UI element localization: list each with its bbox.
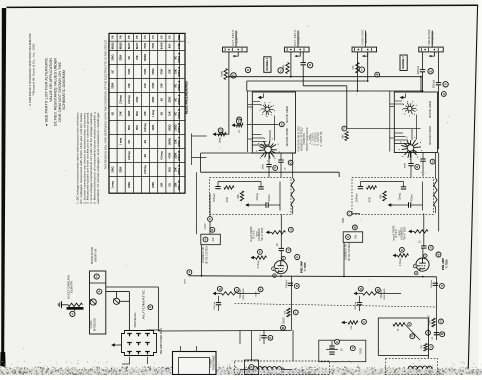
resistor 470K ch2: [367, 186, 377, 189]
svg-text:R: R: [416, 165, 418, 169]
svg-text:0Ω: 0Ω: [160, 112, 163, 115]
svg-text:V4: V4: [151, 35, 155, 39]
pre amp power plug: [122, 331, 157, 356]
svg-text:CHANNEL 2: CHANNEL 2: [402, 56, 405, 70]
wire tone row link ch1: [159, 330, 292, 333]
svg-text:V6: V6: [119, 35, 123, 39]
svg-text:Q: Q: [443, 92, 445, 96]
cap .02 ch1: [258, 187, 263, 189]
coil bottom ch2: [408, 366, 432, 369]
svg-text:K: K: [260, 287, 262, 291]
svg-text:(LEFT): (LEFT): [235, 31, 238, 43]
svg-text:PIN 8: PIN 8: [177, 150, 181, 161]
svg-text:PIN 6: PIN 6: [177, 122, 181, 133]
svg-text:1meg A TAPER: 1meg A TAPER: [250, 226, 253, 242]
svg-text:V6: V6: [111, 35, 115, 39]
wire left drop: [200, 153, 202, 172]
resistor 4.7meg grid ch2: [398, 254, 409, 257]
svg-text:N: N: [269, 336, 271, 340]
svg-text:S: S: [432, 160, 434, 164]
svg-text:PIN 7: PIN 7: [177, 136, 181, 147]
svg-text:V3: V3: [159, 35, 163, 39]
svg-text:33K: 33K: [128, 83, 131, 88]
wire bus L3: [303, 85, 347, 87]
wire ch2 right bus down: [438, 153, 440, 232]
wire bus L4: [247, 90, 423, 92]
svg-text:VALUE OR APPLICATION: VALUE OR APPLICATION: [49, 57, 53, 102]
svg-text:6AU6: 6AU6: [159, 42, 163, 49]
rotary wafer S2 front: [256, 138, 279, 161]
svg-text:470K: 470K: [168, 152, 171, 158]
svg-text:1 meg: 1 meg: [152, 110, 155, 118]
svg-text:150V: 150V: [342, 217, 345, 223]
svg-text:PRE AMP: PRE AMP: [441, 258, 445, 270]
wire loudness ch1 down: [201, 245, 203, 276]
svg-text:1. DC voltage measurements tak: 1. DC voltage measurements taken with va…: [76, 112, 80, 204]
power transformer: [173, 352, 217, 375]
svg-text:4.7meg: 4.7meg: [160, 151, 163, 160]
svg-text:CHANNEL 1: CHANNEL 1: [266, 57, 269, 71]
wire jack4 left pin down: [422, 52, 424, 70]
svg-text:680K: 680K: [263, 163, 265, 169]
svg-text:E: E: [238, 119, 240, 123]
svg-text:6BQ5: 6BQ5: [119, 42, 123, 49]
function switch enclosure channel 1: [252, 92, 295, 153]
svg-text:W: W: [354, 225, 357, 229]
cap .02 ch1 low: [261, 336, 266, 338]
svg-text:PIN 4: PIN 4: [177, 94, 181, 105]
svg-text:33K: 33K: [160, 83, 163, 88]
svg-text:V5: V5: [127, 35, 131, 39]
svg-text:0Ω: 0Ω: [160, 98, 163, 101]
wire bus y153 ch1: [201, 152, 296, 154]
svg-text:.02meg: .02meg: [260, 334, 262, 342]
page border frame left bar: [1, 8, 6, 352]
resistor 1meg jack2: [286, 63, 289, 74]
tube V1 pre-amp half 7025 channel 1: [274, 261, 287, 274]
svg-text:3. Measured values are from so: 3. Measured values are from socket pin t…: [86, 112, 90, 204]
svg-text:470K: 470K: [227, 196, 229, 202]
svg-text:117VAC: 117VAC: [90, 320, 93, 329]
rotary wafer S1 front: [399, 137, 422, 160]
svg-text:PHONO: PHONO: [432, 31, 435, 43]
svg-text:0Ω: 0Ω: [112, 112, 115, 115]
svg-text:PIN 10: PIN 10: [177, 179, 181, 190]
svg-text:2200uuf: 2200uuf: [434, 79, 436, 88]
svg-text:180Ω: 180Ω: [128, 182, 131, 188]
svg-text:470K: 470K: [136, 96, 139, 102]
stub box left: [190, 134, 192, 166]
wire bus y172: [201, 171, 340, 173]
svg-text:10K: 10K: [160, 182, 163, 187]
svg-text:POWER: POWER: [210, 358, 212, 367]
svg-text:180Ω: 180Ω: [174, 125, 177, 131]
svg-text:33K: 33K: [174, 167, 177, 172]
svg-text:NC: NC: [174, 84, 177, 88]
svg-text:PIN 9: PIN 9: [177, 164, 181, 175]
tone cap ch2: [357, 303, 362, 305]
svg-text:ON VOL CONTROL: ON VOL CONTROL: [349, 242, 351, 261]
svg-text:15K: 15K: [136, 55, 139, 60]
cap 470uuf ch1: [266, 202, 268, 207]
AC socket circle 2: [113, 298, 119, 304]
cap 2200uuf jack4b: [436, 83, 441, 85]
svg-text:1500Ω: 1500Ω: [144, 54, 147, 62]
svg-text:6EU7: 6EU7: [127, 42, 131, 49]
cap .0047 ch1: [215, 187, 220, 189]
input jack TAPE RECORD PHONO: [431, 31, 433, 48]
svg-text:V2: V2: [167, 35, 171, 39]
wire ch1 box feed left: [247, 91, 249, 152]
svg-text:220K: 220K: [120, 166, 123, 172]
svg-text:V: V: [352, 346, 354, 350]
loudness switch box ch2: [343, 232, 363, 243]
wire ch1 upper ladder: [253, 104, 262, 106]
svg-text:1meg: 1meg: [219, 137, 222, 144]
svg-text:V4: V4: [143, 35, 147, 39]
svg-text:220K: 220K: [174, 152, 177, 158]
wire dashed bus y305: [235, 304, 437, 308]
wires below power plug: [129, 357, 131, 365]
svg-text:D: D: [296, 284, 298, 288]
svg-text:V5: V5: [135, 35, 139, 39]
svg-text:1500Ω: 1500Ω: [168, 138, 171, 146]
svg-text:BASS: BASS: [283, 317, 286, 324]
wafer stator ch1: [252, 134, 261, 136]
resistor 68K ch2: [345, 132, 348, 141]
wire ch2 upper ladder: [395, 103, 404, 105]
svg-text:1K: 1K: [238, 130, 241, 133]
input jack EXT. INPUT (RIGHT): [297, 31, 299, 48]
svg-text:C: C: [281, 122, 283, 126]
svg-text:680Ω: 680Ω: [168, 125, 171, 131]
wire main bus y276: [189, 276, 437, 277]
svg-text:J: J: [280, 69, 282, 73]
svg-text:MANUAL: MANUAL: [134, 310, 137, 327]
resistor in output box: [393, 323, 405, 326]
svg-text:● SEE PARTS LIST FOR ALTERNATE: ● SEE PARTS LIST FOR ALTERNATE: [45, 58, 49, 126]
svg-text:-160V: -160V: [205, 223, 207, 230]
resistor loudness ch2: [414, 230, 428, 233]
svg-text:L: L: [361, 68, 363, 72]
svg-text:PRE AMP: PRE AMP: [300, 261, 304, 273]
wire plate ch2: [422, 248, 424, 258]
svg-text:56Ω: 56Ω: [136, 125, 139, 130]
resistor 47K jack3: [356, 63, 359, 74]
svg-text:X: X: [430, 246, 432, 250]
svg-text:S: S: [347, 235, 349, 239]
wire ch2 pot to tube: [423, 213, 425, 246]
svg-text:Q: Q: [290, 161, 292, 165]
tube V2 pre-amp half 7025 channel 2: [416, 258, 429, 271]
svg-text:2200uuf: 2200uuf: [418, 65, 420, 74]
node 150V: [347, 211, 352, 216]
svg-text:470K: 470K: [160, 68, 163, 74]
svg-text:470K: 470K: [152, 82, 155, 88]
svg-text:PIN 1: PIN 1: [177, 52, 181, 63]
svg-text:NC: NC: [128, 140, 131, 144]
svg-text:33K: 33K: [421, 345, 423, 349]
svg-text:1 meg: 1 meg: [120, 138, 123, 146]
svg-text:ELECT GROUND: ELECT GROUND: [69, 275, 71, 299]
on-off switch box: [245, 360, 259, 375]
input jack PHONO INPUT SOCKET: [365, 31, 367, 48]
svg-text:1meg A TAPER: 1meg A TAPER: [393, 225, 396, 241]
svg-text:500K: 500K: [256, 291, 258, 297]
svg-text:500K EACH: 500K EACH: [242, 288, 245, 300]
svg-text:(F 3,4,5): (F 3,4,5): [254, 230, 256, 239]
cap 2200uuf jack4a: [420, 70, 425, 72]
electrolytic ground strap: [67, 307, 84, 310]
cap coupling ch2: [421, 246, 426, 248]
svg-text:TONE: TONE: [360, 347, 363, 354]
svg-text:.02meg: .02meg: [399, 192, 401, 200]
svg-text:100K: 100K: [152, 124, 155, 130]
svg-text:0Ω: 0Ω: [168, 183, 171, 186]
resistor 33K: [424, 344, 427, 352]
svg-text:47K: 47K: [352, 65, 355, 70]
svg-text:10K: 10K: [144, 83, 147, 88]
wire jack3 pins down: [356, 52, 358, 91]
svg-text:V: V: [288, 248, 290, 252]
svg-text:R: R: [211, 228, 213, 232]
svg-text:.0047uuf: .0047uuf: [214, 301, 216, 310]
wire ch2 inner verticals: [416, 115, 418, 140]
svg-text:68K: 68K: [380, 194, 382, 199]
svg-text:10K: 10K: [168, 111, 171, 116]
svg-text:Q: Q: [360, 287, 362, 291]
svg-text:180Ω: 180Ω: [112, 167, 115, 173]
svg-text:½ 7025: ½ 7025: [303, 262, 307, 271]
wire plug feed: [112, 344, 118, 346]
svg-text:4.7meg: 4.7meg: [400, 258, 402, 266]
svg-text:470K: 470K: [370, 196, 372, 202]
rotary wafer S1 rear: [402, 101, 417, 116]
jack hook arrow: [233, 52, 238, 56]
svg-text:.0047uuf: .0047uuf: [214, 193, 216, 202]
svg-text:P: P: [441, 284, 443, 288]
wire ch1 outer left: [196, 172, 198, 234]
resistor 1meg left: [218, 133, 229, 135]
svg-text:2.2meg: 2.2meg: [144, 123, 147, 132]
cap 2200 ch2 below tube: [433, 283, 438, 285]
volume control ch2: [434, 178, 437, 207]
svg-text:.02meg: .02meg: [257, 192, 259, 200]
resistor 56K mid row: [348, 321, 358, 324]
caps below wafer ch1: [268, 153, 270, 164]
treble control ch2: [363, 292, 379, 295]
svg-text:AC voltages measured with 1000: AC voltages measured with 1000 ohm per v…: [79, 112, 83, 204]
wire diag: [405, 324, 420, 340]
svg-text:1meg: 1meg: [220, 70, 223, 77]
wire vert ch1 down: [291, 276, 293, 330]
svg-text:½ 7025: ½ 7025: [444, 259, 448, 268]
svg-text:0Ω: 0Ω: [144, 140, 147, 143]
svg-text:TUBE: TUBE: [177, 34, 181, 40]
svg-text:TAP AT 250K: TAP AT 250K: [403, 226, 406, 240]
svg-text:W: W: [441, 332, 444, 336]
svg-text:0Ω: 0Ω: [144, 154, 147, 157]
wire transformer primary stubs: [180, 346, 182, 352]
svg-text:RESISTANCE READINGS: RESISTANCE READINGS: [184, 81, 188, 114]
tone cap ch1: [216, 303, 221, 305]
svg-text:BLK: BLK: [126, 366, 128, 371]
svg-text:H: H: [219, 287, 221, 291]
svg-text:220K: 220K: [152, 96, 155, 102]
svg-text:U: U: [336, 340, 338, 344]
svg-text:SOCKET: SOCKET: [365, 31, 368, 44]
svg-text:220K: 220K: [112, 82, 115, 88]
svg-text:33K: 33K: [168, 69, 171, 74]
jack hook arrow: [295, 52, 300, 56]
svg-text:4. Line voltage maintained at: 4. Line voltage maintained at 117 volts …: [89, 112, 93, 204]
resistor 1meg jack1: [224, 69, 227, 80]
svg-text:680K: 680K: [405, 162, 407, 168]
svg-text:6X4: 6X4: [167, 43, 171, 48]
svg-text:2200uuf: 2200uuf: [286, 280, 288, 288]
wire ch1 pot to tube: [280, 214, 282, 249]
svg-text:1meg: 1meg: [399, 230, 401, 236]
svg-text:LOUDNESS SW: LOUDNESS SW: [346, 243, 348, 260]
svg-text:15K: 15K: [120, 111, 123, 116]
svg-text:C: C: [349, 211, 351, 215]
svg-text:variation of circuit voltages: variation of circuit voltages and resist…: [96, 112, 100, 204]
rotary wafer S2 rear: [260, 102, 275, 117]
wire jack2 left pin down: [290, 52, 292, 77]
svg-text:LOUDNESS: LOUDNESS: [402, 227, 404, 240]
svg-text:220K: 220K: [120, 54, 123, 60]
treble control ch1: [222, 292, 238, 295]
resistor 4.7meg grid ch1: [256, 256, 267, 259]
svg-text:LOUDNESS: LOUDNESS: [259, 228, 261, 241]
svg-text:220K: 220K: [152, 182, 155, 188]
svg-text:PIN 3: PIN 3: [177, 80, 181, 91]
svg-text:PHONO INPUT: PHONO INPUT: [361, 29, 364, 46]
svg-text:PRE AMP POWER PLUG: PRE AMP POWER PLUG: [160, 328, 163, 354]
wafer stator ch2: [394, 132, 403, 134]
svg-text:15K: 15K: [174, 139, 177, 144]
svg-text:56Ω: 56Ω: [136, 111, 139, 116]
svg-text:470uuf: 470uuf: [269, 194, 271, 201]
svg-text:B: B: [149, 305, 151, 309]
volume control ch1: [291, 178, 294, 207]
page border frame right: [468, 5, 477, 372]
svg-text:AMP OUT: AMP OUT: [427, 321, 430, 332]
svg-text:100K: 100K: [128, 110, 131, 116]
svg-text:7025: 7025: [151, 42, 155, 48]
cap coupling ch1: [279, 248, 284, 250]
svg-text:R: R: [377, 288, 379, 292]
resistor loudness ch1: [272, 231, 286, 234]
cap .0047 ch2: [358, 187, 363, 189]
svg-text:S: S: [205, 237, 207, 241]
coil bottom ch1: [248, 367, 282, 370]
svg-text:NC: NC: [112, 70, 115, 74]
svg-text:SECTION 1 REAR: SECTION 1 REAR: [429, 101, 432, 118]
resistor 470K ch1: [224, 186, 234, 189]
channel 1 label: [264, 57, 271, 73]
function switch enclosure channel 2: [394, 92, 437, 153]
wire plate ch1: [280, 251, 282, 261]
svg-text:68K: 68K: [341, 134, 344, 139]
svg-text:5. Nominal tolerance of compon: 5. Nominal tolerance of component values…: [93, 111, 97, 204]
wire net ch2: [361, 181, 404, 183]
svg-text:SECTION 2 FRONT: SECTION 2 FRONT: [286, 127, 289, 146]
svg-text:220K: 220K: [168, 96, 171, 102]
jack hook arrow: [429, 52, 434, 56]
scan noise bottom edge: [0, 369, 482, 375]
svg-text:ON VOL CONTROL: ON VOL CONTROL: [206, 245, 208, 264]
page border frame top: [7, 5, 479, 7]
svg-text:TRANSFORMER: TRANSFORMER: [213, 355, 216, 370]
svg-text:B: B: [437, 253, 439, 257]
svg-text:NC: NC: [174, 112, 177, 116]
svg-text:2.2meg: 2.2meg: [128, 95, 131, 104]
svg-text:1 meg: 1 meg: [112, 181, 115, 189]
svg-text:NC: NC: [128, 56, 131, 60]
svg-text:P: P: [445, 82, 447, 86]
svg-text:D: D: [251, 365, 253, 369]
svg-text:K: K: [411, 334, 413, 338]
svg-text:SECTION 2 REAR: SECTION 2 REAR: [286, 106, 289, 123]
svg-text:.0047uuf: .0047uuf: [356, 193, 358, 202]
svg-text:56Ω: 56Ω: [128, 125, 131, 130]
wire bus L1: [229, 76, 421, 78]
speaker network dashed box bottom left: [235, 361, 330, 375]
resistor 68K ch1: [240, 191, 243, 201]
speaker network dashed box bottom right: [386, 358, 438, 375]
coupling network channel 1 dashed box: [210, 177, 292, 214]
svg-text:TAPE RECORD: TAPE RECORD: [428, 29, 431, 45]
wire bus L2: [247, 80, 368, 82]
resistance readings table: [109, 33, 185, 193]
svg-text:A: A: [296, 255, 298, 259]
svg-text:P: P: [274, 166, 276, 170]
resistor 1K tap: [232, 124, 236, 126]
svg-text:56Ω: 56Ω: [168, 167, 171, 172]
svg-text:6EU7: 6EU7: [135, 42, 139, 49]
svg-text:6BQ5: 6BQ5: [111, 42, 115, 49]
svg-text:GRN: GRN: [150, 366, 152, 371]
svg-text:U: U: [290, 228, 292, 232]
svg-text:S: S: [440, 319, 442, 323]
caps below wafer ch2: [410, 153, 412, 164]
wire jack4 right pin down: [438, 52, 440, 83]
svg-text:180Ω: 180Ω: [112, 55, 115, 61]
svg-text:©Howard W. Sams & Co., Inc. 19: ©Howard W. Sams & Co., Inc. 1962: [32, 43, 35, 96]
svg-text:Z: Z: [96, 275, 98, 279]
svg-text:2200uuf: 2200uuf: [431, 280, 433, 288]
svg-text:160V: 160V: [184, 278, 186, 284]
wire loudness ch2 down: [343, 242, 345, 275]
wire ch2 box feed left: [389, 91, 391, 152]
cap on right bus: [434, 333, 439, 335]
svg-text:4.7meg: 4.7meg: [258, 260, 260, 268]
cap jack2 right pin: [302, 52, 304, 63]
wire ch2 wafer feed: [344, 127, 421, 129]
input jack EXT. INPUT (LEFT): [235, 31, 237, 48]
svg-text:2.2meg: 2.2meg: [128, 151, 131, 160]
wire net ch1: [218, 181, 261, 183]
svg-text:68K: 68K: [238, 194, 240, 199]
svg-text:56K: 56K: [284, 310, 286, 314]
svg-text:15K: 15K: [174, 182, 177, 187]
svg-text:CONTR: CONTR: [72, 281, 74, 293]
svg-text:.0047uuf: .0047uuf: [355, 301, 357, 310]
jack hook arrow: [362, 52, 367, 56]
svg-text:TYPE: TYPE: [177, 43, 181, 49]
cap 470uuf ch2: [409, 202, 411, 207]
